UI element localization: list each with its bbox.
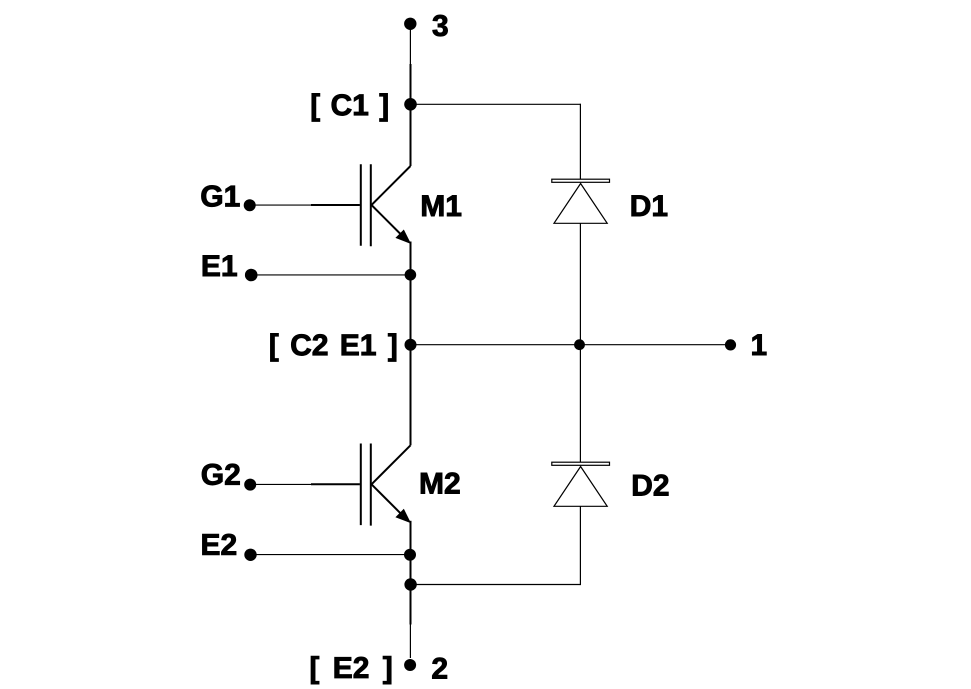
wire D1 to middle wire <box>579 223 581 344</box>
pin G2 dot <box>244 479 256 491</box>
label [ C1 ] <box>312 94 388 122</box>
pin 3 dot <box>404 18 416 30</box>
M1 gate lead <box>311 204 360 206</box>
M2 emitter arrowhead <box>396 510 410 523</box>
label D1 <box>632 195 668 216</box>
wire bottom node to pin 2 (thin) <box>409 625 411 659</box>
wire M1 emitter to node E1 and C2E1 (thick) <box>410 242 412 345</box>
pin 2 dot <box>404 659 416 671</box>
node C1 dot <box>404 98 417 111</box>
label G2 <box>202 464 240 485</box>
pin E2 dot <box>244 549 256 561</box>
D2 triangle <box>554 467 607 507</box>
pin G1 dot <box>244 199 256 211</box>
wire bottom node to D2 branch (horizontal) <box>411 584 581 586</box>
M2 emitter diagonal <box>372 484 405 517</box>
label [ E2 ] <box>311 656 391 684</box>
label M2 <box>421 473 460 494</box>
node E1 dot <box>405 269 417 281</box>
wire G1 (thin) <box>250 204 313 206</box>
label D2 <box>633 475 668 496</box>
wire D1 branch down to diode bar <box>579 104 581 180</box>
M2 gate bar right <box>370 444 372 526</box>
label E2 <box>203 534 237 555</box>
M1 collector diagonal <box>372 166 411 205</box>
wire C2E1 to pin 1 (horizontal) <box>411 344 731 346</box>
transistor M2 (IGBT) <box>311 444 411 526</box>
M1 emitter arrowhead <box>396 230 410 243</box>
label 3 <box>433 15 448 36</box>
label E1 <box>203 255 237 276</box>
M2 collector diagonal <box>372 445 411 484</box>
D1 triangle <box>554 184 607 224</box>
pin 1 dot <box>725 339 736 350</box>
wire C2E1 to M2 collector (thick) <box>410 345 412 446</box>
M1 gate bar right <box>370 164 372 246</box>
M1 gate bar left <box>360 164 362 246</box>
node C2E1 dot <box>405 339 417 351</box>
D1 cathode bar <box>552 179 610 182</box>
wire C1 to D1 branch (horizontal) <box>411 103 581 105</box>
node E2-bottom dot <box>404 578 416 590</box>
wire D2 triangle to bottom wire <box>579 506 581 585</box>
pin E1 dot <box>245 269 258 282</box>
label G1 <box>202 186 240 207</box>
M1 emitter diagonal <box>372 205 405 238</box>
wire C1 to M1 collector (thick) <box>410 104 412 166</box>
D2 cathode bar <box>552 462 610 465</box>
wire pin3 lead (thin) <box>409 24 411 64</box>
wire G2 (thin) <box>250 483 313 485</box>
label 1 <box>752 335 766 356</box>
junction dot on middle wire <box>574 339 585 350</box>
wire M2 emitter to node E2 and bottom node (thick) <box>410 521 412 625</box>
node E2 dot <box>404 549 416 561</box>
wire middle wire down to D2 bar <box>579 345 581 463</box>
label 2 <box>432 658 447 679</box>
diode D1 <box>552 179 610 223</box>
wire E1 (thin) <box>251 274 410 276</box>
M2 gate lead <box>311 483 360 485</box>
M2 gate bar left <box>360 444 362 526</box>
wire pin3 to C1 (thick) <box>410 64 412 104</box>
label [ C2 E1 ] <box>271 334 397 362</box>
wire E2 (thin) <box>251 554 411 556</box>
label M1 <box>422 196 461 217</box>
diode D2 <box>552 462 610 506</box>
transistor M1 (IGBT) <box>311 164 411 246</box>
